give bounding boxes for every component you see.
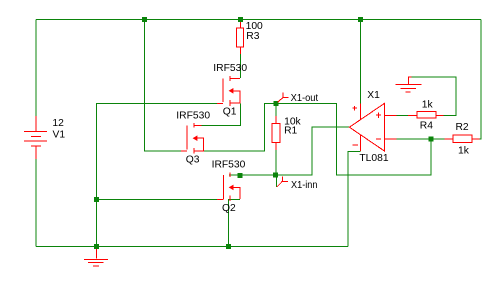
svg-text:R2: R2: [456, 122, 469, 133]
svg-text:IRF530: IRF530: [176, 110, 210, 121]
svg-text:Q2: Q2: [222, 203, 236, 214]
svg-text:Q1: Q1: [223, 106, 237, 117]
svg-text:X1-inn: X1-inn: [291, 180, 318, 191]
svg-text:TL081: TL081: [359, 153, 388, 164]
svg-text:V1: V1: [53, 129, 66, 140]
svg-text:R1: R1: [284, 126, 297, 137]
svg-text:X1: X1: [367, 90, 380, 101]
svg-text:X1-out: X1-out: [291, 93, 319, 104]
svg-text:IRF530: IRF530: [213, 63, 247, 74]
svg-text:R3: R3: [246, 31, 259, 42]
svg-text:1k: 1k: [422, 100, 434, 111]
svg-text:1k: 1k: [458, 146, 470, 157]
svg-text:R4: R4: [420, 121, 433, 132]
svg-text:IRF530: IRF530: [212, 160, 246, 171]
svg-text:12: 12: [52, 118, 64, 129]
svg-text:Q3: Q3: [186, 155, 200, 166]
